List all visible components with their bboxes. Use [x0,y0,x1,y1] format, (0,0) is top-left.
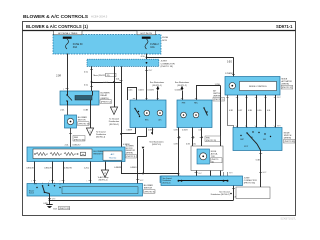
svg-text:WHT: WHT [277,125,281,127]
blower motor label [78,117,91,126]
svg-text:(WHITE): (WHITE) [213,96,221,98]
A/C thermo sub-box [103,151,122,160]
joint connector J2 [161,176,243,186]
svg-text:JOINT: JOINT [161,61,168,63]
relay label [100,93,112,104]
svg-text:(PHOTO 38): (PHOTO 38) [284,141,294,143]
svg-text:0.3G/O: 0.3G/O [182,130,188,132]
blower switch band [27,184,143,197]
wire ref1 to box1 [157,91,159,100]
wire J1 to relay coil [84,66,93,91]
wire J1 to page ref triangle [114,66,116,107]
svg-text:(PHOTO 31): (PHOTO 31) [206,140,216,142]
mode switch [233,128,282,151]
svg-text:See Illustrations: See Illustrations [150,81,164,84]
wire motor to resistor [65,128,85,147]
node fuse2 branch [146,57,148,59]
wire resistor to A/C relay ref [114,162,179,177]
svg-text:(PHOTO 31): (PHOTO 31) [59,208,70,210]
svg-text:0.3L: 0.3L [116,79,120,81]
svg-text:B/L: B/L [251,137,253,139]
wire box2 pin3 to actuator motor [193,128,203,150]
svg-text:To A/C Relay: To A/C Relay [98,176,109,179]
svg-text:0.5G/O: 0.5G/O [148,90,155,92]
svg-text:(SD700-1): (SD700-1) [96,137,106,139]
svg-text:See Illustrations: See Illustrations [149,141,163,144]
svg-text:(PHOTO 18): (PHOTO 18) [161,66,174,68]
wire box1 to blower switch [130,128,146,184]
svg-text:0.45G: 0.45G [138,89,144,91]
wire see-ill to ground bus [142,147,145,175]
svg-text:FOOT: FOOT [244,146,248,148]
svg-text:BLOWER & A/C CONTROLS: BLOWER & A/C CONTROLS [23,14,89,20]
svg-text:0.3L: 0.3L [267,110,271,112]
wire resistor to triangle C [105,162,107,171]
svg-text:BLOWER: BLOWER [101,93,111,95]
svg-text:FUSE: FUSE [162,37,168,39]
svg-text:SZKBT1017L: SZKBT1017L [280,217,296,221]
svg-text:0.3L: 0.3L [199,130,203,132]
svg-text:0.3B/W: 0.3B/W [123,144,130,146]
svg-text:0.3B/W: 0.3B/W [126,130,132,132]
svg-text:(PHOTO 35): (PHOTO 35) [74,139,85,141]
svg-text:BLOWER: BLOWER [78,117,88,119]
pin ticks at blower switch [31,180,92,182]
svg-text:0.85L/W: 0.85L/W [64,168,72,170]
node on J1 [146,62,148,64]
svg-text:Distribution (SD700-2): Distribution (SD700-2) [211,193,230,196]
header band [23,30,296,32]
svg-text:0.5G: 0.5G [227,62,232,64]
outer box pins to J2 [195,171,211,177]
bus bar left [63,37,72,39]
svg-text:BOX: BOX [162,40,167,42]
svg-text:1.25B: 1.25B [215,84,221,86]
svg-text:BLOWER: BLOWER [94,151,104,153]
wires resistor to blower switch [26,162,34,184]
box2 label (recirc switch) [213,90,225,102]
connector label Main (PHOTO 11) [94,73,117,77]
see illustrations ref below box1 [149,128,163,147]
goalpost wire at box1 left [128,87,145,100]
see illustrations ref 2 [175,81,189,90]
svg-text:(PHOTO 8): (PHOTO 8) [145,191,155,193]
bus bar right [142,37,151,39]
RHD photo label [205,136,221,142]
see illustrations ref 1 [150,81,164,90]
svg-text:(PHOTO 2): (PHOTO 2) [101,102,111,104]
svg-text:3: 3 [49,180,50,182]
wire box1 to resistor band [121,128,136,147]
svg-text:(WHITE): (WHITE) [101,98,109,100]
tab HOT IN ON [137,31,156,35]
page ref triangle C [98,170,109,182]
svg-text:(SD971-1): (SD971-1) [99,180,108,182]
svg-text:RELAY: RELAY [101,94,108,97]
svg-text:(PHOTO 33): (PHOTO 33) [79,124,91,126]
svg-text:(SD700-2): (SD700-2) [163,182,171,184]
svg-text:OFF: OFF [34,184,37,186]
svg-text:(SD700-1): (SD700-1) [109,124,119,126]
wire J1 feed to box1 [145,66,154,100]
svg-text:(PHOTO 37): (PHOTO 37) [282,87,292,89]
svg-text:WHT: WHT [229,173,233,175]
page ref triangle B [86,128,106,139]
resistor label [94,151,106,156]
rec/fresh switch box1 [130,100,166,128]
blower motor [65,115,77,128]
svg-text:BLOWER: BLOWER [144,185,154,187]
svg-text:Switch: Switch [29,192,34,195]
blower switch label [144,185,156,193]
svg-text:0.3G: 0.3G [258,110,262,112]
empty ref box bottom right [236,187,270,199]
svg-text:MODE CONTROL: MODE CONTROL [249,86,268,88]
svg-text:0.3L: 0.3L [193,144,197,146]
mode switch label [284,133,296,144]
recirc actuator label [211,151,223,164]
svg-text:(SD971-1): (SD971-1) [152,85,162,87]
svg-text:(PHOTO 3): (PHOTO 3) [126,156,135,158]
svg-text:0.85L/O: 0.85L/O [73,144,81,146]
mode actuator [225,77,280,96]
svg-text:4: 4 [31,180,32,182]
rec actuator box2 [177,100,212,128]
svg-text:MOTOR: MOTOR [78,120,86,122]
wire relay to ground triangle B [84,105,91,128]
page ref triangle A [109,107,120,126]
svg-text:Thermo: Thermo [109,156,117,159]
wire fuse30 to relay [56,54,68,92]
wire box2 pin2 to outer box [182,128,194,147]
svg-text:WHT: WHT [198,173,202,175]
tab HOT AT ALL TIMES [54,31,83,35]
svg-text:HOT AT ALL TIMES: HOT AT ALL TIMES [58,32,78,35]
svg-text:VENT: VENT [240,139,244,141]
wire fuse2 down [141,54,147,61]
svg-text:WHT: WHT [277,97,281,99]
resistor elements [34,152,85,156]
svg-text:1.25B/W: 1.25B/W [225,73,233,75]
svg-text:BLOWER & A/C CONTROLS (1): BLOWER & A/C CONTROLS (1) [26,24,89,29]
svg-text:0.3B/O: 0.3B/O [148,130,154,132]
fuse F30 [66,39,84,49]
svg-text:0.85L/B: 0.85L/B [26,168,34,170]
ground G13 [46,205,70,211]
svg-text:(WHITE): (WHITE) [282,84,290,86]
pin ticks box1/box2 [126,99,197,132]
long wire J1 to resistor thermo [116,66,123,147]
resistor band right label [126,146,137,159]
recirc actuator outer box [191,146,223,171]
wires mode actuator to mode switch [226,95,280,128]
svg-text:0.3B/O: 0.3B/O [130,167,137,169]
fuse box (E/R junction block) [53,35,161,55]
blower switch ground wire [43,196,55,205]
svg-text:2: 2 [59,180,60,182]
svg-text:0.3B: 0.3B [84,110,89,112]
svg-text:(PHOTO 5): (PHOTO 5) [214,99,224,101]
blower relay [60,91,99,105]
svg-text:See Illustrations: See Illustrations [175,81,189,84]
svg-text:HOT IN ON: HOT IN ON [141,33,153,35]
svg-text:0.3B/W: 0.3B/W [114,167,121,169]
svg-text:34): 34) [211,162,214,164]
svg-text:To Ground: To Ground [109,118,120,121]
fuse F2 [145,39,159,49]
svg-text:0.3G: 0.3G [186,144,190,146]
joint connector J1 [87,59,175,68]
wire branch to mode actuator [147,57,236,76]
svg-text:WHT: WHT [148,70,152,72]
svg-text:WHT: WHT [263,172,267,174]
A/C relay ref label box [160,176,181,183]
svg-text:10A: 10A [150,46,155,49]
svg-text:A/C: A/C [111,153,115,156]
wire relay to blower motor [60,105,67,115]
svg-text:(PHOTO 36): (PHOTO 36) [244,183,256,185]
svg-text:CONNECTOR: CONNECTOR [161,63,175,65]
J2 label [244,178,257,185]
wire box2 to joint connector J2 [175,84,221,176]
svg-text:0.45: 0.45 [129,89,133,91]
wire ref2 to box2 [182,91,184,100]
svg-text:Distribution: Distribution [109,120,120,123]
stub pins on J2 [224,172,233,176]
svg-text:0.85L/R: 0.85L/R [44,168,52,170]
svg-text:DEF: DEF [263,139,266,141]
mode actuator label [281,79,293,90]
blower switch rotary symbol [29,183,138,196]
blower resistor box [27,147,125,162]
wire branch relay coil to long wire [91,81,121,84]
svg-text:1: 1 [86,180,87,182]
svg-text:HCE4-2004.5: HCE4-2004.5 [91,14,108,18]
svg-text:30A: 30A [73,46,78,49]
mode switch ground wire [256,151,267,188]
wire box2 pin1 to J2 [174,128,181,177]
recirc actuator motor [197,149,210,164]
svg-text:2.0R: 2.0R [56,76,61,78]
svg-text:0.5G/B: 0.5G/B [175,90,182,92]
svg-text:Distribution: Distribution [96,133,106,136]
svg-text:1.25L: 1.25L [84,168,90,170]
svg-text:(SD971-1): (SD971-1) [152,144,162,146]
svg-text:4 WHT: 4 WHT [103,82,108,84]
svg-text:WHT: WHT [140,180,144,182]
svg-text:SWITCH: SWITCH [144,188,153,190]
ground bus wire to right [50,186,240,201]
svg-text:SD971-1: SD971-1 [276,24,293,29]
